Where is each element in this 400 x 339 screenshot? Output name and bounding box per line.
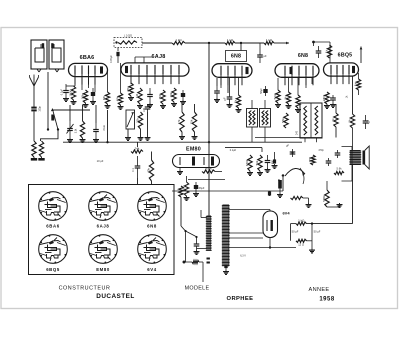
svg-text:3.3k: 3.3k [75,128,78,133]
trimmer ant [69,121,71,128]
resistor 56k det [258,155,262,171]
wire HT sec top [229,209,270,211]
capacitor C 0.1uF [65,86,67,90]
capacitor 100pF [147,104,149,107]
wire AVC vertical [107,110,109,142]
resistor osc2 [172,88,176,102]
svg-text:20k: 20k [169,92,173,97]
arrow HT out [284,42,289,44]
capacitor pot2 [328,158,330,161]
svg-text:0.1µF: 0.1µF [61,88,64,95]
svg-text:15k: 15k [189,119,193,124]
trimmer padder [126,110,135,129]
ground row [65,97,67,99]
svg-text:DUCASTEL: DUCASTEL [96,293,134,300]
resistor 1k (HT) [172,41,185,44]
resistor 270k [325,92,329,104]
wire main B+ vertical [208,43,210,216]
feedback loop wire [342,147,353,182]
pinout 6BQ5 [39,235,68,264]
svg-text:1 kΩ: 1 kΩ [266,38,273,42]
wire drop 6N8 [240,43,242,51]
capacitor det2 [273,159,276,163]
svg-text:0.1: 0.1 [132,168,135,172]
resistor mid2 [80,121,84,138]
capacitor electrolytic af [278,180,282,189]
svg-text:1k: 1k [283,96,287,100]
resistor mid right a [180,112,184,132]
IF transformer T2 [247,109,258,128]
svg-text:240: 240 [296,130,299,135]
svg-text:150: 150 [158,94,162,99]
wire em80 bus [225,147,262,149]
capacitor 680pF [267,155,269,160]
pinout 6V4 [138,235,167,264]
switch band selector [47,128,49,130]
power transformer primary [207,216,212,251]
resistor 56k [83,90,87,103]
resistor 470 pot [311,155,315,165]
resistor 1M em [184,182,188,196]
frame antenna loop 1 [31,40,47,69]
svg-text:47k: 47k [177,119,181,124]
svg-text:63µF: 63µF [199,187,205,190]
resistor 56k IF [284,113,288,128]
resistor 1k right [356,79,360,90]
capacitor em [195,182,197,186]
svg-text:1958: 1958 [319,297,335,303]
resistor 12ohm [296,239,307,242]
resistor 330 [105,92,109,104]
capacitor grid 6BQ5 [318,46,320,51]
pinout EM80 [89,235,118,264]
wire rect bottom [269,238,271,248]
wire primary top [201,217,207,219]
power transformer secondary [223,205,230,267]
wire heater [229,232,263,234]
resistor osc R [39,141,43,157]
capacitor pad [182,90,184,94]
svg-text:50 µF: 50 µF [314,230,321,234]
resistor det [296,95,300,108]
svg-text:L 0.025: L 0.025 [124,35,133,38]
svg-text:EM80: EM80 [96,267,110,272]
svg-text:56k: 56k [255,160,259,165]
wire sec bottom [229,247,296,249]
svg-text:6V4: 6V4 [147,267,156,272]
svg-text:40k: 40k [146,168,150,173]
svg-text:6BQ5: 6BQ5 [338,53,353,59]
svg-text:6BQ5: 6BQ5 [46,267,60,272]
svg-text:6V4: 6V4 [282,211,290,216]
switch mains [184,230,186,232]
svg-text:470k: 470k [205,166,212,170]
svg-text:1 kΩ: 1 kΩ [175,38,182,42]
resistor 47k [118,93,122,105]
capacitor osc [149,88,151,94]
svg-text:5.6k: 5.6k [273,93,277,99]
svg-text:56k: 56k [281,118,285,123]
resistor 500k [325,190,329,207]
IF transformer T3 [300,103,322,138]
svg-text:6BA6: 6BA6 [46,224,59,229]
capacitor 6N8 k [229,93,231,97]
arrow HT right [360,47,362,64]
resistor 24k [131,150,143,153]
tube V5 6BQ5 [324,63,359,76]
pinout 6BA6 [39,192,68,221]
svg-text:470p: 470p [318,149,324,152]
resistor 1k det out [334,113,338,127]
capacitor ant coupling [31,107,36,109]
svg-text:12 Ω: 12 Ω [298,243,304,247]
resistor 470k det [248,155,252,171]
svg-text:1k: 1k [331,118,335,122]
wire grid top [74,78,76,86]
resistor ant R [32,141,36,157]
wire B+ out [291,223,297,225]
center tap ground [224,265,227,268]
capacitor 6N8 left [216,86,218,91]
svg-text:µF: µF [223,97,227,100]
svg-text:1 kΩ: 1 kΩ [227,38,234,42]
wire af bus [172,190,283,192]
resistor 1M [138,88,142,104]
plug prongs [207,258,210,260]
svg-text:330: 330 [103,95,106,100]
wire grid cap [135,56,152,58]
antenna [33,86,35,107]
svg-text:1k: 1k [353,82,357,86]
svg-text:0.05µF: 0.05µF [110,55,113,63]
resistor mains filter [179,186,183,197]
tube V6 EM80 [173,155,220,168]
output transformer + speaker [350,150,361,165]
resistor 1k (HT3) [264,41,274,44]
svg-text:6AJ8: 6AJ8 [97,224,110,229]
svg-text:ANNEE: ANNEE [308,287,329,293]
svg-text:µF: µF [286,145,289,148]
resistor 5.6k [276,90,280,103]
mains cord [183,261,186,264]
svg-text:µF: µF [263,54,266,58]
capacitor coupling 6N8 [259,43,261,51]
svg-text:3 kΩ: 3 kΩ [103,125,106,130]
svg-text:6BA6: 6BA6 [80,55,95,61]
svg-text:50 µF: 50 µF [292,230,299,234]
capacitor out [365,115,367,121]
capacitor 58uF [265,86,267,90]
wire switch to R [41,130,59,142]
tube pinout box [29,185,175,275]
pinout 6N8 [138,192,167,221]
resistor 6N8 k [236,95,240,108]
svg-text:470k: 470k [245,159,249,166]
svg-text:27k: 27k [126,87,130,92]
wire speaker down [352,165,354,224]
capacitor screen [92,88,94,93]
svg-text:5.6k: 5.6k [336,167,342,171]
resistor screen 6BQ5 [327,45,331,58]
svg-text:470: 470 [308,157,312,162]
svg-text:6N8: 6N8 [231,54,241,60]
resistor 40k af [149,160,153,181]
svg-text:2k: 2k [233,99,237,103]
svg-text:270k: 270k [322,94,326,101]
svg-text:100: 100 [143,107,146,112]
wire det bus [255,137,322,139]
capacitor 0.1 af [137,152,139,169]
wire loop output [47,72,49,129]
wire output vertical [352,128,354,150]
dial lamp box (dashed) [114,38,142,48]
capacitor 0.1 pot [292,149,294,152]
svg-text:4µF: 4µF [368,119,371,124]
capacitor det [332,95,334,98]
potentiometer volume [285,168,305,176]
svg-text:56k: 56k [80,94,84,99]
svg-text:500k: 500k [322,195,326,202]
svg-text:CONSTRUCTEUR: CONSTRUCTEUR [59,286,111,292]
svg-text:0.1µF: 0.1µF [230,149,237,152]
svg-text:MODELE: MODELE [185,286,210,292]
resistor mid right b [192,112,196,132]
svg-text:EM80: EM80 [186,147,201,153]
capacitor 63uF reservoir [268,191,271,195]
tube V1 6BA6 [69,63,108,76]
wire AVC bus [63,141,302,143]
svg-text:6N8: 6N8 [298,53,308,59]
svg-text:ORPHEE: ORPHEE [227,296,254,302]
frame antenna loop 2 [49,40,64,69]
svg-text:1k: 1k [347,119,351,123]
svg-text:1k: 1k [324,49,328,53]
resistor 1k (HT2) [225,41,235,44]
svg-text:100p: 100p [39,106,42,112]
svg-text:1M: 1M [135,93,139,98]
ground EM80 [179,168,181,171]
resistor 5.6k fb [334,171,344,174]
wire grid bus [52,109,90,111]
svg-text:6,3 V: 6,3 V [240,255,246,258]
svg-text:6AJ8: 6AJ8 [152,54,166,60]
resistor 100 [71,86,75,100]
dial cord arc [300,168,304,184]
resistor 27k [129,83,133,96]
svg-text:100Ω: 100Ω [68,89,72,97]
resistor 470k EM80 [202,170,215,173]
capacitor mid3 [95,123,97,129]
pinout 6AJ8 [89,192,118,221]
svg-text:47k: 47k [115,96,119,101]
ground row coils [127,136,129,138]
svg-text:22k: 22k [135,118,139,123]
svg-text:10 µF: 10 µF [97,159,104,163]
ground filter [311,224,313,249]
tube V4 6N8 [275,64,319,78]
resistor cathode 6BQ5 [291,196,304,199]
svg-text:58µF: 58µF [260,88,263,94]
tube V2 6AJ8 [121,63,189,76]
wire lamp drop [117,48,119,52]
resistor osc coil [138,112,142,129]
capacitor 0.05uF [116,52,119,56]
capacitor mains [196,240,198,244]
resistor 1k out [350,114,354,128]
svg-text:6N8: 6N8 [147,224,157,229]
tube V7 6V4 rectifier [263,211,278,238]
svg-text:1 kΩ: 1 kΩ [298,218,305,222]
wire HT bus [142,42,172,44]
wire em horizontal [188,179,225,181]
resistor 1k a [286,92,290,104]
resistor 150 [161,90,165,104]
tube V3 6N8 [212,64,252,78]
resistor 1k filter [296,222,307,225]
wire right drop [326,181,328,190]
